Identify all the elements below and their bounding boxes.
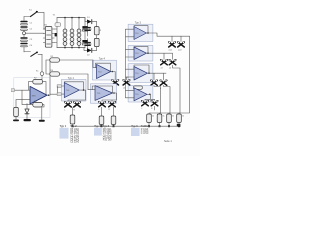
- svg-text:Seite 1: Seite 1: [164, 140, 172, 143]
- svg-text:K1: K1: [36, 71, 39, 73]
- resistor R14: [177, 114, 182, 127]
- wire output U1: [47, 60, 50, 96]
- capacitor C5: [63, 18, 67, 37]
- resistor R9: [111, 107, 116, 127]
- capacitor C4: [20, 43, 33, 52]
- feedback wire U7: [134, 65, 149, 73]
- svg-text:L: L: [99, 109, 100, 111]
- junction blob: [55, 33, 57, 36]
- svg-text:Typ 1: Typ 1: [60, 125, 67, 128]
- wire out U2: [68, 89, 86, 101]
- capacitor C14: [84, 39, 90, 51]
- wire inputs U1: [11, 89, 30, 100]
- svg-text:o2: o2: [123, 87, 125, 89]
- wire in U5: [88, 89, 95, 91]
- connector X5: [99, 101, 106, 111]
- svg-text:1k: 1k: [152, 116, 154, 118]
- svg-text:L: L: [65, 109, 66, 111]
- svg-text:C5 22n0: C5 22n0: [70, 142, 80, 144]
- svg-text:o3: o3: [161, 67, 163, 69]
- svg-text:R: R: [74, 109, 76, 111]
- svg-text:TL0: TL0: [135, 33, 138, 35]
- wire: [41, 54, 43, 71]
- wire out U5: [102, 92, 117, 101]
- svg-text:C4: C4: [30, 45, 34, 47]
- feedback wire U5: [92, 86, 112, 93]
- fuse F1: [55, 23, 61, 27]
- box Typ1: [62, 77, 87, 101]
- svg-text:R: R: [151, 108, 153, 110]
- svg-text:D1: D1: [87, 17, 90, 19]
- label resistor values: [152, 116, 184, 118]
- capacitor C12 polarized: [82, 40, 87, 48]
- connector X10: [169, 41, 176, 51]
- wire: [85, 18, 87, 22]
- table Typ6: [131, 125, 149, 136]
- label C13: [89, 29, 92, 31]
- wire feed right column: [125, 29, 127, 98]
- connector X12: [161, 59, 168, 69]
- svg-text:1k: 1k: [172, 116, 174, 118]
- resistor R11: [147, 114, 152, 127]
- wire stubs to connectors: [172, 36, 181, 41]
- wire: [169, 65, 180, 114]
- connector X3: [112, 79, 119, 89]
- svg-text:C1: C1: [30, 23, 34, 25]
- wire: [160, 85, 171, 114]
- resistor R3: [22, 90, 45, 122]
- svg-text:Typ 2: Typ 2: [70, 125, 77, 128]
- capacitor C8: [70, 38, 74, 48]
- capacitor C1: [20, 17, 33, 25]
- wire: [154, 106, 156, 110]
- wire: [96, 22, 98, 27]
- svg-text:TL0: TL0: [135, 53, 138, 55]
- resistor R13: [167, 114, 172, 127]
- connector X7: [151, 80, 158, 90]
- table Typ1/Typ2: [60, 125, 80, 144]
- svg-text:Typ 1: Typ 1: [68, 77, 75, 80]
- wire long right vertical: [179, 36, 190, 114]
- svg-text:Typ 5: Typ 5: [103, 125, 110, 128]
- bus GND: [73, 124, 181, 127]
- svg-text:Typ 6: Typ 6: [131, 125, 138, 128]
- svg-text:R: R: [100, 30, 102, 32]
- svg-text:out2: out2: [178, 49, 182, 52]
- resistor R10 feedback: [133, 86, 142, 89]
- connector X13: [169, 59, 176, 69]
- feedback wire U3: [134, 26, 148, 33]
- svg-text:Typ 4: Typ 4: [94, 125, 101, 128]
- wire: [84, 48, 87, 51]
- svg-text:C2: C2: [30, 29, 34, 31]
- op-amp U2: [64, 83, 79, 98]
- svg-text:Tr1: Tr1: [53, 14, 56, 17]
- wire: [43, 13, 45, 29]
- wire out2: [147, 52, 173, 59]
- resistor R7: [70, 108, 75, 128]
- feedback wire U2: [64, 82, 83, 90]
- table Typ4: [94, 125, 112, 142]
- svg-text:TL0: TL0: [135, 73, 138, 75]
- connector J1: [36, 71, 44, 85]
- resistor R8: [99, 107, 104, 127]
- op-amp U7: [126, 67, 148, 81]
- svg-text:S1: S1: [29, 10, 32, 12]
- feedback wire U4: [96, 63, 111, 71]
- switch S2: [24, 52, 42, 57]
- node 0V: [23, 32, 26, 35]
- capacitor C9: [77, 18, 81, 37]
- connector X9b: [151, 100, 158, 110]
- box3: [128, 64, 153, 83]
- capacitor C11 polarized: [82, 18, 87, 40]
- op-amp U3: [126, 27, 147, 40]
- svg-text:TL0: TL0: [135, 94, 138, 96]
- box U5: [91, 84, 117, 103]
- op-amp U5: [95, 86, 113, 101]
- svg-text:1k: 1k: [182, 116, 184, 118]
- capacitor C3: [20, 35, 33, 42]
- svg-text:L: L: [142, 108, 143, 110]
- capacitor C10: [77, 38, 81, 48]
- svg-text:C 47n0: C 47n0: [141, 133, 149, 135]
- rail +V: [57, 17, 85, 19]
- pad in2: [57, 93, 64, 96]
- diode D1: [87, 17, 97, 24]
- svg-text:Typ 4: Typ 4: [99, 57, 106, 60]
- box input stage: [14, 78, 50, 118]
- pad in1: [50, 85, 64, 95]
- resistor R21: [94, 38, 99, 50]
- connector X1: [65, 101, 72, 111]
- rail 0V: [57, 47, 85, 49]
- diode D2: [87, 48, 97, 56]
- capacitor C6: [63, 38, 67, 48]
- connector X8: [160, 80, 167, 90]
- svg-text:D2: D2: [87, 55, 90, 57]
- diode D3: [24, 104, 31, 122]
- connector X2: [74, 101, 81, 111]
- connector X11: [178, 41, 185, 51]
- svg-text:C3: C3: [30, 39, 34, 41]
- svg-text:R: R: [109, 109, 111, 111]
- box Typ4: [93, 57, 117, 80]
- op-amp U1: [30, 86, 47, 104]
- rectifier B1: [43, 24, 54, 47]
- wire rectifier to rails: [54, 18, 57, 48]
- resistor R2 feedback: [29, 78, 47, 96]
- connector X6: [109, 101, 116, 111]
- connector X4: [123, 79, 130, 89]
- wire to rectifier: [26, 32, 44, 34]
- wire out3: [148, 72, 167, 79]
- label Seite 1: [164, 140, 172, 143]
- svg-text:out1: out1: [169, 49, 173, 52]
- wire in U4: [93, 60, 97, 68]
- label C14: [89, 44, 92, 46]
- svg-text:R 22k1: R 22k1: [141, 125, 150, 128]
- capacitor C2: [20, 26, 33, 31]
- connector X9a: [142, 100, 149, 110]
- op-amp U6: [126, 47, 147, 60]
- resistor R5: [46, 56, 93, 62]
- capacitor C13: [84, 22, 90, 36]
- resistor R1 vertical: [13, 100, 19, 122]
- resistor R20: [94, 27, 102, 39]
- wire verticals to bottom: [149, 85, 161, 114]
- svg-text:1k: 1k: [163, 116, 165, 118]
- svg-text:R10 1k0: R10 1k0: [103, 140, 112, 142]
- svg-text:Typ 3: Typ 3: [135, 22, 142, 25]
- switch S1: [24, 10, 44, 17]
- svg-text:B1: B1: [45, 24, 48, 26]
- resistor R6: [46, 60, 88, 90]
- op-amp U4: [97, 64, 111, 78]
- wire out U4: [111, 71, 129, 80]
- box4: [128, 86, 153, 103]
- block Typ3 box1: [128, 22, 153, 42]
- wire out1: [147, 32, 190, 36]
- svg-text:o4: o4: [169, 67, 171, 69]
- feedback wire U6: [134, 47, 148, 54]
- capacitor C7: [70, 18, 74, 37]
- op-amp U8: [126, 88, 148, 101]
- box2: [128, 45, 153, 61]
- resistor R12: [157, 114, 162, 127]
- label Tr1: [53, 14, 56, 17]
- wire out U8: [145, 94, 155, 101]
